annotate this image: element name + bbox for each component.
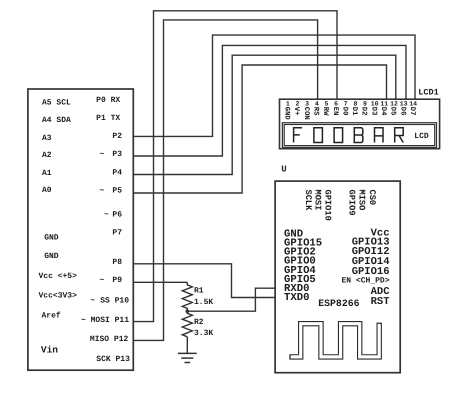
svg-text:A5 SCL: A5 SCL <box>42 98 71 107</box>
svg-text:CS0: CS0 <box>367 190 377 206</box>
LCD1 display window (double border) <box>282 123 436 148</box>
svg-text:SCLK: SCLK <box>303 190 313 212</box>
svg-text:RS: RS <box>312 107 320 116</box>
svg-text:MOSI P11: MOSI P11 <box>91 316 130 325</box>
LCD1 display text letter B <box>354 128 363 143</box>
wire U1 P3 to LCD pin 13 D6 <box>133 45 406 156</box>
ground symbol <box>178 353 197 362</box>
svg-text:A2: A2 <box>42 151 52 160</box>
resistor R2 <box>182 311 192 337</box>
svg-text:P3: P3 <box>112 150 122 159</box>
svg-text:LCD1: LCD1 <box>418 87 438 97</box>
wire divider node A (R1/R2 junction) to U2 RXD0 <box>187 288 275 311</box>
svg-text:P6: P6 <box>112 211 122 220</box>
svg-text:V+: V+ <box>292 107 300 116</box>
svg-text:P4: P4 <box>112 169 122 178</box>
svg-text:D0: D0 <box>340 107 348 116</box>
LCD1 pin numbers 1-14 <box>286 100 417 107</box>
svg-text:D6: D6 <box>398 107 406 116</box>
junction dot node A <box>186 309 190 313</box>
svg-text:P9: P9 <box>112 276 122 285</box>
svg-text:3.3K: 3.3K <box>194 329 213 338</box>
LCD1 display text letter O <box>314 128 323 143</box>
wire U1 MISO P12 to LCD pin 4 RS <box>133 20 317 341</box>
wire U1 MOSI P11 to LCD pin 6 EN <box>133 11 337 322</box>
svg-text:R1: R1 <box>194 287 204 296</box>
svg-text:Aref: Aref <box>42 312 61 321</box>
svg-text:SCK P13: SCK P13 <box>96 355 130 364</box>
wire U1 P2 to LCD pin 14 D7 <box>133 35 415 136</box>
svg-text:Vin: Vin <box>41 344 58 355</box>
LCD1 display text letter F <box>294 128 303 143</box>
svg-text:EN <CH_PD>: EN <CH_PD> <box>341 276 389 285</box>
svg-text:MISO: MISO <box>357 190 367 211</box>
svg-text:RST: RST <box>371 296 390 308</box>
svg-text:D7: D7 <box>408 107 416 116</box>
svg-text:P7: P7 <box>112 229 122 238</box>
LCD1 display text letter A <box>375 128 384 143</box>
wire U1 P9 to resistor R1 top <box>133 281 187 283</box>
svg-text:A4 SDA: A4 SDA <box>42 116 71 125</box>
svg-text:LCD: LCD <box>414 132 429 141</box>
svg-text:P5: P5 <box>112 187 122 196</box>
wire R2 bottom to ground <box>186 337 188 354</box>
svg-text:EN: EN <box>331 107 339 116</box>
U2 top rotated pin labels SCLK MOSI GPIO10 GPIO9 MISO CS0 <box>303 190 377 221</box>
svg-text:U: U <box>281 164 286 174</box>
svg-text:ESP8266: ESP8266 <box>318 298 359 309</box>
svg-text:~: ~ <box>100 187 105 196</box>
wire U1 P5 to LCD pin 11 D4 <box>133 65 386 193</box>
svg-text:P2: P2 <box>112 132 122 141</box>
svg-text:GPIO9: GPIO9 <box>346 190 356 216</box>
LCD1 display text letter O <box>334 128 343 143</box>
LCD1 pin names GND V+ CON RS RW EN D0-D7 (rotated) <box>283 107 416 121</box>
svg-text:D5: D5 <box>389 107 397 116</box>
U1 left-side pin labels (A5 SCL, A4 SDA, A3-A0, GND, GND, Vcc (+5), Vcc(3V3), Aref) <box>39 98 78 320</box>
wire U1 P8 to U2 TXD0 <box>133 264 275 298</box>
svg-text:R2: R2 <box>194 318 204 327</box>
svg-text:GND: GND <box>283 107 291 121</box>
svg-text:TXD0: TXD0 <box>284 292 309 304</box>
svg-text:Vcc<3V3>: Vcc<3V3> <box>39 292 78 301</box>
svg-text:P0 RX: P0 RX <box>96 96 120 105</box>
svg-text:CON: CON <box>302 107 310 120</box>
svg-text:D4: D4 <box>379 107 387 116</box>
svg-text:GND: GND <box>44 252 59 261</box>
square wave symbol inside U2 <box>289 323 379 357</box>
svg-text:Vcc <+5>: Vcc <+5> <box>39 272 78 281</box>
U1 right-side pin labels (P0 RX - SCK P13) <box>81 96 130 364</box>
svg-text:~: ~ <box>90 297 95 306</box>
svg-text:MISO P12: MISO P12 <box>90 335 129 344</box>
IC U2 (ESP8266) body <box>275 181 400 373</box>
svg-text:A0: A0 <box>42 186 52 195</box>
svg-text:~: ~ <box>100 150 105 159</box>
svg-text:A1: A1 <box>42 169 52 178</box>
svg-text:MOSI: MOSI <box>313 190 323 211</box>
svg-text:~: ~ <box>81 316 86 325</box>
svg-text:~: ~ <box>100 276 105 285</box>
svg-text:GPIO10: GPIO10 <box>323 190 333 221</box>
svg-text:P1 TX: P1 TX <box>96 114 120 123</box>
svg-text:D3: D3 <box>369 107 377 116</box>
LCD1 display text letter R <box>395 128 404 143</box>
wire U1 P4 to LCD pin 12 D5 <box>133 55 395 174</box>
U2 left-side pin labels GND GPIO15 GPIO2 GPIO0 GPIO4 GPIO5 RXD0 TXD0 <box>284 229 322 305</box>
svg-text:D1: D1 <box>350 107 358 116</box>
svg-text:D2: D2 <box>360 107 368 116</box>
svg-text:A3: A3 <box>42 134 52 143</box>
U2 right-side pin labels Vcc GPIO13 GPOI12 GPIO14 GPIO16 EN (CH_PD) ADC RST <box>341 227 390 308</box>
resistor R1 <box>182 282 192 311</box>
svg-text:1.5K: 1.5K <box>194 298 213 307</box>
svg-text:P8: P8 <box>112 258 122 267</box>
IC U1 (microcontroller) body <box>28 89 133 370</box>
svg-text:SS P10: SS P10 <box>100 297 129 306</box>
svg-text:GND: GND <box>44 233 59 242</box>
LCD1 module body <box>280 99 440 149</box>
svg-text:~: ~ <box>104 211 109 220</box>
svg-text:RW: RW <box>321 107 329 116</box>
